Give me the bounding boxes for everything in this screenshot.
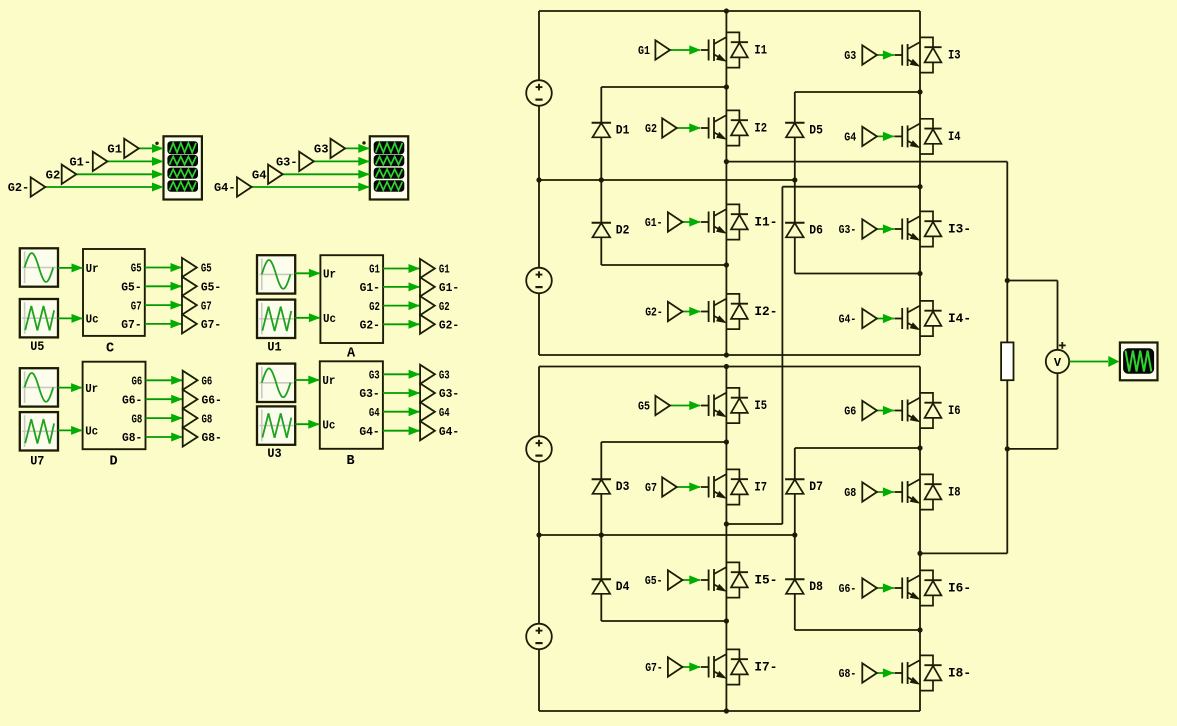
svg-text:G1-: G1- <box>360 281 380 295</box>
svg-text:I1-: I1- <box>754 215 777 230</box>
svg-text:G5: G5 <box>638 400 650 414</box>
svg-text:G1: G1 <box>369 263 380 277</box>
svg-text:D2: D2 <box>616 223 630 238</box>
svg-text:G3-: G3- <box>359 387 379 401</box>
svg-text:G2-: G2- <box>8 181 30 195</box>
svg-text:Uc: Uc <box>322 418 335 432</box>
svg-text:I4-: I4- <box>948 311 971 326</box>
svg-text:I3-: I3- <box>948 222 971 237</box>
svg-text:G2: G2 <box>645 122 657 136</box>
svg-text:G4: G4 <box>844 131 856 145</box>
svg-text:G3: G3 <box>369 369 380 383</box>
svg-text:D8: D8 <box>809 579 823 594</box>
svg-text:G4-: G4- <box>214 181 236 195</box>
svg-text:G6-: G6- <box>202 393 222 407</box>
svg-text:G7-: G7- <box>645 661 663 675</box>
svg-text:G7: G7 <box>201 299 212 313</box>
svg-text:Ur: Ur <box>323 268 336 282</box>
svg-text:Uc: Uc <box>86 313 99 327</box>
svg-text:G6: G6 <box>202 375 213 389</box>
svg-text:G2: G2 <box>369 300 380 314</box>
svg-text:Ur: Ur <box>85 382 98 396</box>
svg-text:D4: D4 <box>616 579 630 594</box>
svg-text:I6-: I6- <box>948 581 971 596</box>
svg-text:G3: G3 <box>844 49 856 63</box>
svg-text:U5: U5 <box>30 339 44 354</box>
svg-text:G8: G8 <box>132 412 143 426</box>
svg-text:G4-: G4- <box>839 313 857 327</box>
svg-text:G4-: G4- <box>439 425 459 439</box>
svg-text:G7: G7 <box>645 481 657 495</box>
svg-text:C: C <box>106 342 114 357</box>
svg-text:V: V <box>1054 356 1062 370</box>
svg-text:G1: G1 <box>439 263 450 277</box>
svg-text:G6: G6 <box>132 375 143 389</box>
svg-text:D3: D3 <box>616 479 630 494</box>
svg-text:G5-: G5- <box>201 281 221 295</box>
svg-text:G3: G3 <box>314 143 329 157</box>
svg-text:A: A <box>347 347 356 362</box>
svg-text:G4: G4 <box>439 406 450 420</box>
svg-text:G7-: G7- <box>121 318 141 332</box>
svg-text:G3-: G3- <box>439 387 459 401</box>
svg-text:I7: I7 <box>754 480 767 495</box>
svg-text:G2-: G2- <box>439 319 459 333</box>
svg-text:D7: D7 <box>809 479 823 494</box>
svg-text:Ur: Ur <box>86 262 99 276</box>
svg-text:G3-: G3- <box>276 156 298 170</box>
svg-text:I3: I3 <box>948 48 961 63</box>
svg-text:G8-: G8- <box>122 431 142 445</box>
svg-text:G6: G6 <box>844 405 856 419</box>
svg-text:I8: I8 <box>948 485 961 500</box>
svg-text:I7-: I7- <box>754 660 777 675</box>
svg-text:G3-: G3- <box>839 223 857 237</box>
svg-text:I5: I5 <box>754 398 767 413</box>
svg-text:I6: I6 <box>948 403 961 418</box>
svg-text:I5-: I5- <box>754 573 777 588</box>
svg-text:I2-: I2- <box>754 304 777 319</box>
svg-text:G4-: G4- <box>359 425 379 439</box>
svg-text:G1-: G1- <box>70 156 92 170</box>
svg-text:G1: G1 <box>638 44 650 58</box>
svg-text:I2: I2 <box>754 121 767 136</box>
svg-text:Uc: Uc <box>85 425 98 439</box>
svg-text:G2: G2 <box>46 169 61 183</box>
svg-text:U1: U1 <box>267 340 281 355</box>
svg-text:G4: G4 <box>252 169 267 183</box>
svg-text:I1: I1 <box>754 43 767 58</box>
svg-text:G1-: G1- <box>439 281 459 295</box>
svg-text:G8-: G8- <box>839 667 857 681</box>
svg-text:D6: D6 <box>809 223 823 238</box>
svg-text:Uc: Uc <box>323 312 336 326</box>
svg-text:G2-: G2- <box>360 319 380 333</box>
svg-text:G5: G5 <box>201 262 212 276</box>
svg-text:I4: I4 <box>948 129 961 144</box>
svg-text:G8: G8 <box>844 486 856 500</box>
svg-text:G1-: G1- <box>645 216 663 230</box>
svg-text:G3: G3 <box>439 369 450 383</box>
svg-text:G6-: G6- <box>839 582 857 596</box>
svg-text:U7: U7 <box>30 454 44 469</box>
svg-text:G4: G4 <box>369 406 380 420</box>
svg-text:G8: G8 <box>202 412 213 426</box>
svg-text:G7-: G7- <box>201 318 221 332</box>
svg-text:G6-: G6- <box>122 393 142 407</box>
svg-text:G2: G2 <box>439 300 450 314</box>
svg-text:U3: U3 <box>267 446 281 461</box>
svg-text:D1: D1 <box>616 123 630 138</box>
svg-text:Ur: Ur <box>322 374 335 388</box>
svg-text:G7: G7 <box>131 299 142 313</box>
svg-text:B: B <box>347 454 355 469</box>
svg-text:G2-: G2- <box>645 306 663 320</box>
svg-text:G5-: G5- <box>645 574 663 588</box>
svg-text:G1: G1 <box>107 143 122 157</box>
svg-text:D5: D5 <box>809 123 823 138</box>
svg-text:G8-: G8- <box>202 431 222 445</box>
svg-text:I8-: I8- <box>948 666 971 681</box>
svg-text:D: D <box>110 455 118 470</box>
svg-text:G5-: G5- <box>121 281 141 295</box>
svg-text:G5: G5 <box>131 262 142 276</box>
